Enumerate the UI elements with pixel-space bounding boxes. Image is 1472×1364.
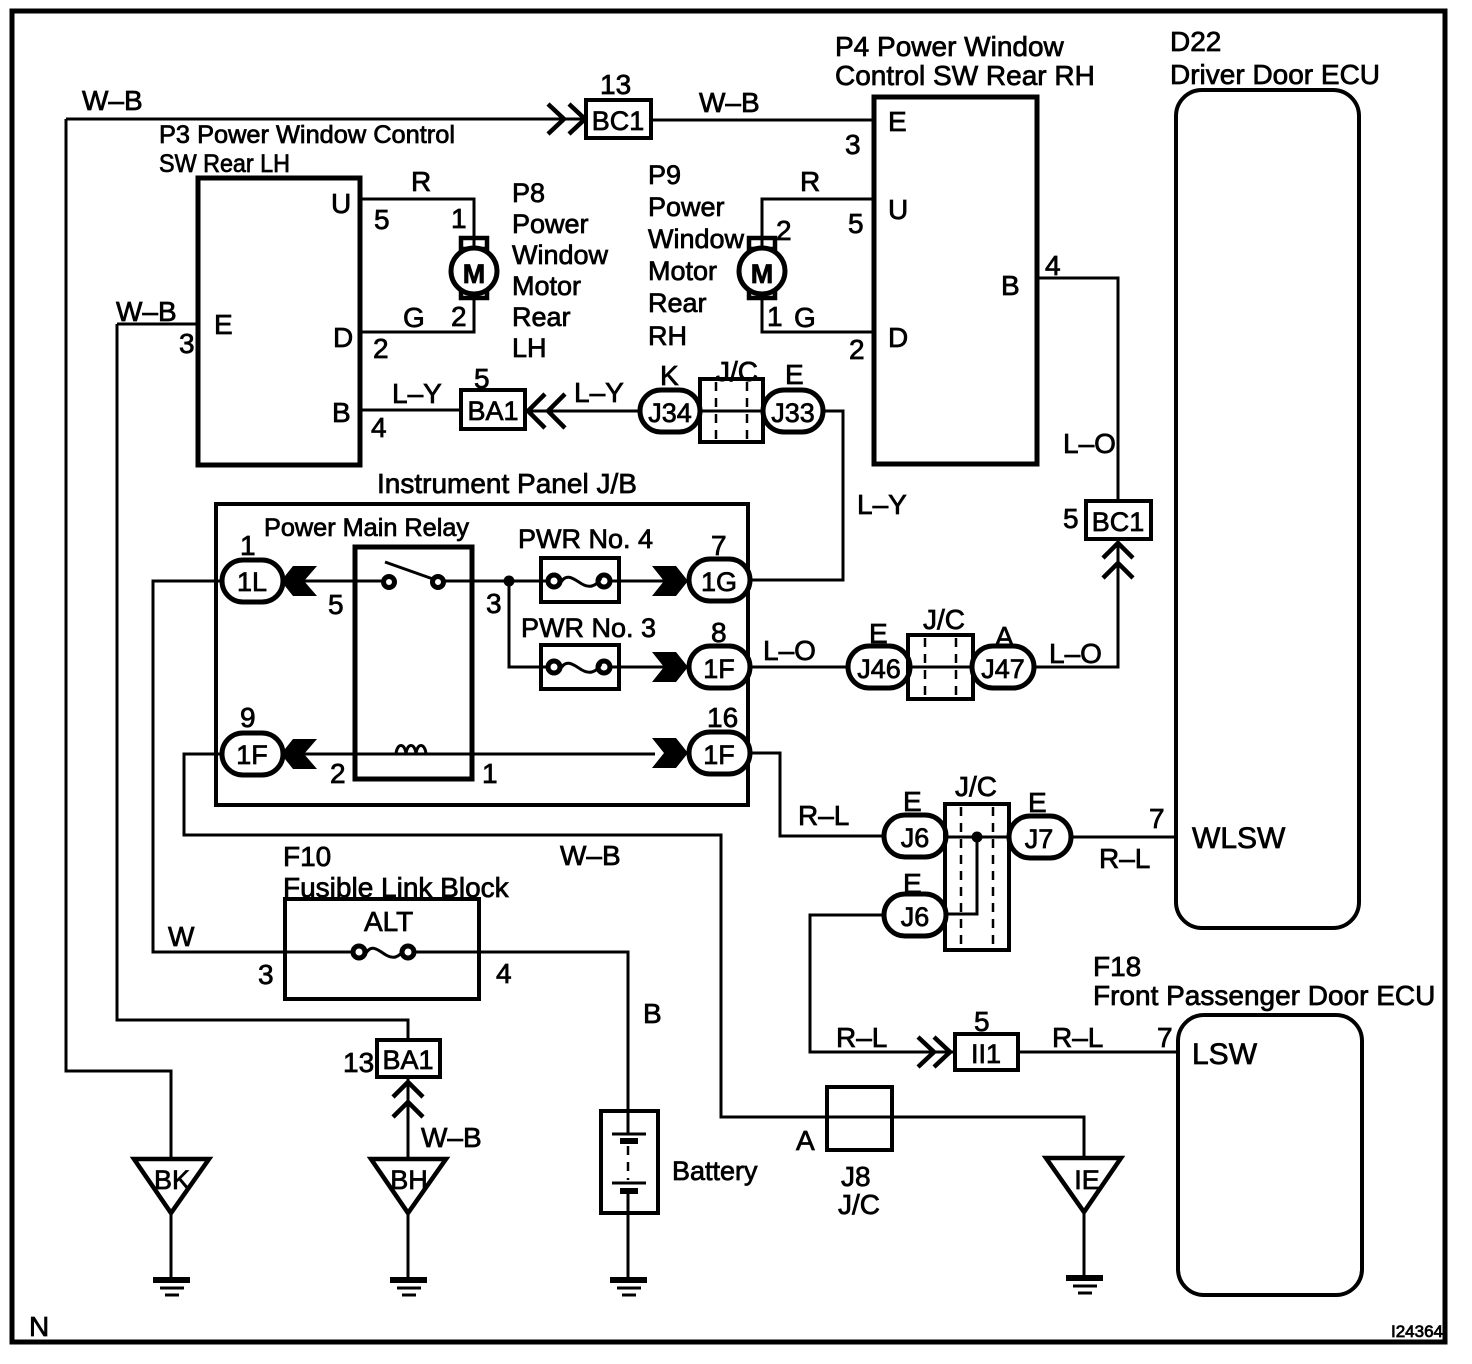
svg-text:Motor: Motor [512, 271, 581, 301]
label P4 title [835, 31, 1095, 91]
svg-text:G: G [794, 302, 816, 333]
svg-text:5: 5 [474, 363, 490, 394]
connector II1 chevrons [918, 1037, 950, 1067]
svg-text:3: 3 [258, 959, 274, 990]
svg-text:J46: J46 [857, 654, 901, 684]
svg-text:J/C: J/C [955, 771, 997, 802]
ground IE [1066, 1278, 1103, 1293]
svg-text:Fusible Link Block: Fusible Link Block [283, 872, 510, 903]
svg-text:M: M [463, 259, 486, 289]
pin labels P4 [845, 106, 1061, 365]
label W-B top left [82, 85, 143, 116]
svg-text:J/C: J/C [923, 604, 965, 635]
svg-text:Window: Window [512, 240, 609, 270]
svg-text:ALT: ALT [364, 906, 413, 937]
svg-text:Power Main Relay: Power Main Relay [264, 514, 470, 542]
label 5 at II1 [974, 1006, 990, 1037]
svg-text:7: 7 [1149, 803, 1165, 834]
svg-text:G: G [403, 302, 425, 333]
wire W-B top horizontal [66, 119, 874, 120]
label 5 at BA1 [474, 363, 490, 394]
label E at J7 [1028, 787, 1047, 818]
battery [601, 1111, 658, 1213]
svg-text:L–Y: L–Y [574, 377, 624, 408]
svg-text:BC1: BC1 [1092, 507, 1145, 537]
wire 1F16 to J6 [750, 753, 884, 836]
svg-text:A: A [796, 1125, 815, 1156]
svg-text:J/C: J/C [838, 1189, 880, 1220]
svg-text:E: E [869, 618, 888, 649]
svg-text:SW Rear LH: SW Rear LH [159, 150, 290, 178]
wire P4 U to motor P9 [762, 199, 874, 248]
svg-text:L–Y: L–Y [392, 378, 442, 409]
label 7 at LSW [1157, 1022, 1173, 1053]
label P8 motor title [512, 178, 609, 363]
svg-text:W: W [168, 921, 195, 952]
wire BK to ground [170, 1213, 173, 1277]
svg-text:E: E [785, 359, 804, 390]
ground BH [390, 1280, 427, 1295]
connector 1G pin 7 [689, 559, 750, 601]
svg-text:IE: IE [1074, 1165, 1100, 1195]
wire W-B left vertical down to BK [66, 119, 171, 1159]
wire W into fuse ALT [285, 951, 353, 954]
svg-text:J6: J6 [901, 902, 930, 932]
label L-Y vertical wire [857, 489, 907, 520]
wire W-B to P3 pin E [117, 323, 198, 326]
arrow into 1F 8 [652, 652, 688, 682]
svg-text:5: 5 [848, 208, 864, 239]
svg-text:2: 2 [330, 758, 346, 789]
junction block J/C at J6 J7 [945, 804, 1009, 950]
svg-text:BC1: BC1 [592, 106, 645, 136]
svg-text:R–L: R–L [798, 800, 849, 831]
svg-text:L–O: L–O [1049, 638, 1102, 669]
svg-text:Driver Door ECU: Driver Door ECU [1170, 59, 1380, 90]
pin labels motor P9 loop [767, 166, 820, 333]
D22 Driver Door ECU box [1176, 90, 1359, 928]
label R-L at WLSW [1099, 843, 1150, 874]
svg-text:N: N [29, 1311, 49, 1342]
svg-text:2: 2 [373, 333, 389, 364]
Power Main Relay box [355, 547, 472, 779]
label L-O above BC1 5 [1063, 428, 1116, 459]
wire J8 to IE [892, 1117, 1084, 1158]
svg-text:R–L: R–L [836, 1022, 887, 1053]
svg-text:A: A [995, 621, 1014, 652]
connector BC1 13 chevrons [548, 104, 585, 134]
arrow into 1L [281, 566, 317, 596]
svg-text:1F: 1F [703, 654, 735, 684]
svg-text:B: B [643, 998, 662, 1029]
connector BA1 13 chevrons [393, 1082, 423, 1117]
label 7 at WLSW [1149, 803, 1165, 834]
wire motor P8 to P3 D [360, 297, 474, 332]
svg-text:L–Y: L–Y [857, 489, 907, 520]
label R-L at II1 [836, 1022, 887, 1053]
svg-text:Motor: Motor [648, 256, 717, 286]
svg-text:9: 9 [240, 702, 256, 733]
svg-text:R: R [800, 166, 820, 197]
svg-text:1: 1 [240, 530, 256, 561]
svg-text:II1: II1 [971, 1039, 1001, 1069]
connector BA1 5 chevrons [528, 394, 565, 428]
label 13 at BA1 [343, 1047, 374, 1078]
label R-L at J6 [798, 800, 849, 831]
pin labels P3 [179, 188, 390, 443]
wire IE to ground [1083, 1212, 1086, 1276]
svg-text:16: 16 [707, 702, 738, 733]
svg-text:LH: LH [512, 333, 547, 363]
P4 Power Window Control SW Rear RH box [874, 97, 1037, 464]
svg-text:D: D [333, 322, 353, 353]
svg-text:13: 13 [343, 1047, 374, 1078]
fuse ALT [353, 946, 414, 958]
svg-text:1: 1 [482, 758, 498, 789]
svg-text:D: D [888, 322, 908, 353]
svg-text:J47: J47 [981, 654, 1025, 684]
junction block J/C at J34 [700, 379, 763, 442]
label R-L after II1 [1052, 1022, 1103, 1053]
wire L-O BC1 down to J47 [1034, 540, 1118, 667]
junction J47 [972, 646, 1034, 688]
label F18 title [1093, 951, 1435, 1011]
arrow into 1F 9 [281, 739, 317, 769]
F18 Front Passenger Door ECU box [1178, 1015, 1362, 1295]
svg-text:J33: J33 [771, 398, 815, 428]
wire relay to junction dot [444, 580, 548, 583]
ground BK [153, 1280, 190, 1295]
fuse PWR No. 3 [541, 645, 619, 689]
wire BH to ground [407, 1213, 410, 1277]
junction block J8 J/C [827, 1087, 892, 1150]
wire R-L J7 to D22 WLSW [1071, 836, 1176, 839]
svg-text:B: B [1001, 270, 1020, 301]
wire 1F 9 left down W-B [184, 754, 827, 1117]
ground battery [610, 1280, 647, 1295]
wire L-Y J33 down to 1G [750, 411, 843, 580]
label J/C at J34 [716, 356, 758, 387]
label N [29, 1311, 49, 1342]
Instrument Panel J/B box [216, 504, 748, 805]
svg-text:1: 1 [451, 203, 467, 234]
connector 1F pin 16 [689, 732, 750, 774]
wire branch dot to PWR No. 3 [509, 581, 548, 667]
motor P8 M [451, 238, 497, 298]
label Instrument Panel J/B [377, 468, 637, 499]
svg-text:4: 4 [496, 958, 512, 989]
junction J33 [763, 390, 823, 432]
relay coil [396, 746, 426, 756]
svg-text:W–B: W–B [560, 840, 621, 871]
svg-text:R: R [411, 166, 431, 197]
svg-text:RH: RH [648, 321, 687, 351]
svg-text:J8: J8 [841, 1161, 871, 1192]
junction block J/C at J46 [908, 635, 973, 699]
svg-text:Instrument Panel J/B: Instrument Panel J/B [377, 468, 637, 499]
svg-text:E: E [1028, 787, 1047, 818]
svg-text:BK: BK [154, 1165, 190, 1195]
label E at J6 [903, 786, 922, 817]
svg-text:D22: D22 [1170, 26, 1221, 57]
pin labels motor P8 loop [403, 166, 467, 333]
wire P3 U to motor P8 [360, 199, 474, 248]
label W-B after BC1 [699, 87, 760, 118]
label E at J6 lower [903, 868, 922, 899]
svg-text:B: B [332, 397, 351, 428]
svg-text:J6: J6 [901, 823, 930, 853]
svg-text:3: 3 [486, 588, 502, 619]
label L-O at 1F8 [763, 635, 816, 666]
svg-text:5: 5 [328, 589, 344, 620]
ground triangle BH [371, 1159, 446, 1213]
svg-text:2: 2 [776, 215, 792, 246]
svg-text:L–O: L–O [1063, 428, 1116, 459]
svg-text:WLSW: WLSW [1192, 822, 1286, 855]
svg-text:Control SW Rear RH: Control SW Rear RH [835, 60, 1095, 91]
svg-text:BH: BH [390, 1165, 428, 1195]
svg-text:J34: J34 [648, 398, 692, 428]
svg-text:M: M [751, 259, 774, 289]
label 13 at BC1 [600, 69, 631, 100]
label 5 at BC1 [1063, 503, 1079, 534]
label Battery [672, 1156, 758, 1186]
svg-text:E: E [903, 786, 922, 817]
svg-text:P4 Power Window: P4 Power Window [835, 31, 1065, 62]
svg-text:1F: 1F [703, 740, 735, 770]
svg-text:P3 Power Window Control: P3 Power Window Control [159, 121, 455, 149]
wire W-B BA1 to BH [407, 1078, 410, 1159]
connector 1F pin 8 [689, 646, 750, 688]
label Power Main Relay [264, 514, 470, 542]
wire 1L to relay switch [283, 580, 384, 583]
svg-text:W–B: W–B [421, 1122, 482, 1153]
svg-text:Rear: Rear [648, 288, 707, 318]
ground triangle BK [134, 1159, 209, 1213]
wire W-B vertical from P3 E down to BA1 13 [117, 324, 408, 1040]
junction J6 upper [884, 815, 946, 857]
svg-text:4: 4 [371, 412, 387, 443]
junction J46 [848, 646, 910, 688]
svg-text:13: 13 [600, 69, 631, 100]
svg-text:W–B: W–B [699, 87, 760, 118]
junction J6 lower [884, 894, 946, 936]
svg-text:1G: 1G [701, 567, 737, 597]
svg-text:E: E [214, 309, 233, 340]
label W at fuse [168, 921, 195, 952]
label J/C at J6 [955, 771, 997, 802]
wire L-O P4 B to BC1 5 [1037, 278, 1118, 501]
label W-B at BH [421, 1122, 482, 1153]
pin labels F10 [258, 958, 512, 990]
wire L-Y BA1 to J34 [525, 410, 640, 413]
label W-B at P3 E [116, 296, 177, 327]
label WLSW [1192, 822, 1286, 855]
svg-text:3: 3 [845, 129, 861, 160]
connector 1F pin 9 [222, 733, 283, 775]
svg-text:LSW: LSW [1192, 1038, 1258, 1071]
wire relay coil row [283, 753, 655, 756]
label D22 title [1170, 26, 1380, 90]
label K at J34 [660, 360, 679, 391]
label E at J46 [869, 618, 888, 649]
label I24364 [1391, 1322, 1443, 1341]
svg-text:1L: 1L [237, 567, 267, 597]
svg-text:Battery: Battery [672, 1156, 758, 1186]
svg-text:2: 2 [849, 334, 865, 365]
svg-text:P9: P9 [648, 160, 681, 190]
wire P3 B to BA1 [360, 409, 460, 412]
svg-text:BA1: BA1 [467, 396, 518, 426]
label A at J8 [796, 1125, 815, 1156]
svg-text:J/C: J/C [716, 356, 758, 387]
svg-text:3: 3 [179, 328, 195, 359]
svg-text:PWR No. 3: PWR No. 3 [521, 613, 656, 643]
svg-text:L–O: L–O [763, 635, 816, 666]
junction J34 [640, 390, 700, 432]
wire battery to ground [627, 1213, 630, 1277]
connector BA1 13 box [377, 1040, 440, 1077]
label W-B right of F10 [560, 840, 621, 871]
label L-Y after BA1 [574, 377, 624, 408]
label ALT [364, 906, 413, 937]
svg-text:Power: Power [648, 192, 725, 222]
svg-text:5: 5 [974, 1006, 990, 1037]
wire motor P9 to P4 D [762, 297, 874, 332]
arrow into 1G [652, 566, 688, 596]
svg-text:E: E [903, 868, 922, 899]
label LSW [1192, 1038, 1258, 1071]
connector BC1 13 box [586, 100, 651, 138]
F10 Fusible Link Block box [285, 899, 479, 999]
svg-text:U: U [888, 194, 908, 225]
svg-text:PWR No. 4: PWR No. 4 [518, 524, 653, 554]
junction dot node [504, 576, 515, 587]
label J8 J/C [838, 1161, 880, 1220]
label F10 title [283, 841, 510, 903]
relay switch contacts and arm [384, 562, 444, 588]
svg-text:1: 1 [767, 301, 783, 332]
junction J7 [1009, 816, 1071, 858]
svg-text:Window: Window [648, 224, 745, 254]
label J/C at J46 [923, 604, 965, 635]
svg-text:F18: F18 [1093, 951, 1141, 982]
pin labels J/B [240, 530, 738, 789]
wire fuse ALT pin4 to battery [414, 952, 628, 1111]
svg-text:I24364: I24364 [1391, 1322, 1443, 1341]
svg-text:5: 5 [374, 204, 390, 235]
label P9 motor title [648, 160, 745, 351]
svg-text:K: K [660, 360, 679, 391]
svg-text:U: U [331, 188, 351, 219]
wire fuse3 to 1F pin 8 [610, 666, 689, 669]
svg-text:5: 5 [1063, 503, 1079, 534]
motor P9 M [739, 238, 785, 298]
wire fuse4 to 1G [610, 580, 689, 583]
svg-text:4: 4 [1045, 250, 1061, 281]
connector BA1 5 box [461, 390, 525, 429]
svg-text:Rear: Rear [512, 302, 571, 332]
connector BC1 5 box [1086, 501, 1151, 539]
connector BC1 5 chevrons [1103, 543, 1133, 578]
svg-text:7: 7 [1157, 1022, 1173, 1053]
label P3 title [159, 121, 455, 178]
ground triangle IE [1046, 1158, 1121, 1212]
label A at J47 [995, 621, 1014, 652]
svg-text:Front Passenger Door ECU: Front Passenger Door ECU [1093, 980, 1435, 1011]
label E at J33 [785, 359, 804, 390]
arrow into 1F 16 [652, 738, 688, 768]
svg-text:F10: F10 [283, 841, 331, 872]
label B at battery wire [643, 998, 662, 1029]
wire J6 lower down to II1 [810, 915, 955, 1052]
wire R-L II1 to F18 LSW [1018, 1051, 1178, 1054]
svg-text:P8: P8 [512, 178, 545, 208]
fuse PWR No. 4 [541, 558, 619, 602]
svg-text:1F: 1F [236, 740, 268, 770]
connector 1L pin 1 [222, 560, 283, 602]
wire L-O 1F8 to J46 [750, 666, 848, 669]
P3 Power Window Control SW Rear LH box [198, 178, 360, 465]
svg-text:2: 2 [451, 301, 467, 332]
wire 1L left down to F10 [153, 581, 285, 952]
svg-text:7: 7 [711, 530, 727, 561]
svg-text:8: 8 [711, 617, 727, 648]
svg-text:W–B: W–B [82, 85, 143, 116]
svg-text:Power: Power [512, 209, 589, 239]
label L-Y at P3 B [392, 378, 442, 409]
svg-text:J7: J7 [1025, 824, 1054, 854]
svg-text:BA1: BA1 [382, 1045, 433, 1075]
svg-text:R–L: R–L [1052, 1022, 1103, 1053]
label PWR No. 3 [521, 613, 656, 643]
connector II1 5 box [955, 1034, 1018, 1070]
label L-O after J47 [1049, 638, 1102, 669]
svg-text:W–B: W–B [116, 296, 177, 327]
label PWR No. 4 [518, 524, 653, 554]
svg-text:E: E [888, 106, 907, 137]
svg-text:R–L: R–L [1099, 843, 1150, 874]
